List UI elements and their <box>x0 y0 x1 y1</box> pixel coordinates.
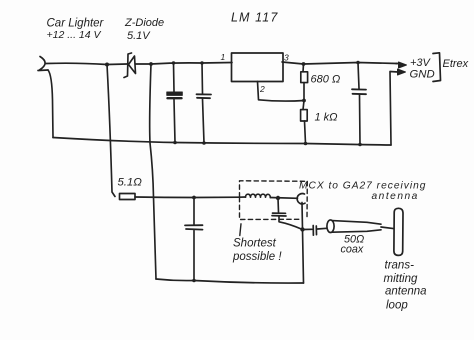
wire LM117 pin3 to output node <box>282 62 397 64</box>
svg-text:+12 ... 14 V: +12 ... 14 V <box>47 29 102 41</box>
connector J1 car lighter plug <box>38 57 48 71</box>
wire long vertical from node B down to lower rail <box>150 64 156 279</box>
svg-text:5.1V: 5.1V <box>127 30 151 42</box>
capacitor C4 <box>185 198 203 281</box>
resistor 680R <box>301 64 308 101</box>
inductor L1 <box>240 194 271 197</box>
node E junction cap C4 top <box>192 196 196 200</box>
svg-text:mitting: mitting <box>384 273 418 285</box>
bracket Etrex <box>433 53 441 82</box>
resistor 5R1 <box>120 194 136 200</box>
dashed shield box <box>240 181 308 220</box>
wire +3V output arrow <box>396 63 399 65</box>
junction dot cap C2 top <box>200 61 203 64</box>
leader line from Shortest to shield box <box>240 224 241 236</box>
node B junction at long vertical <box>149 62 153 66</box>
node D junction pin2 / resistors <box>302 99 306 103</box>
junction dot 1k bottom <box>304 142 308 146</box>
svg-text:Shortest: Shortest <box>233 238 277 250</box>
junction dot C2 bottom <box>202 141 206 145</box>
junction dot input cap C1 top <box>172 61 175 64</box>
svg-text:Z-Diode: Z-Diode <box>124 17 164 29</box>
wire lower rail <box>156 279 304 283</box>
wire LM117 pin2 down and right to adj node <box>258 82 305 102</box>
wire +12V rail from plug to zener <box>46 63 127 64</box>
resistor 1k <box>301 101 308 144</box>
svg-text:antenna: antenna <box>385 286 427 298</box>
svg-text:1 kΩ: 1 kΩ <box>315 112 338 124</box>
label Car Lighter <box>47 18 105 42</box>
regulator U1 LM117 box <box>232 53 284 82</box>
label LM 117 <box>231 11 278 25</box>
svg-text:LM 117: LM 117 <box>231 11 278 25</box>
svg-text:antenna: antenna <box>372 191 419 202</box>
svg-text:coax: coax <box>341 244 364 256</box>
wire 5.1R to filter node <box>135 196 240 199</box>
node A junction +12V at first vertical <box>105 63 109 67</box>
svg-text:MCX to GA27 receiving: MCX to GA27 receiving <box>299 180 426 191</box>
svg-text:loop: loop <box>386 300 408 312</box>
capacitor C3 output <box>352 63 366 145</box>
capacitor C5 <box>272 198 303 230</box>
capacitor C1 electrolytic <box>167 63 183 143</box>
svg-text:3: 3 <box>284 53 289 63</box>
connector MCX plug <box>297 194 305 204</box>
wire +12V rail zener to LM117 pin1 <box>136 63 233 65</box>
wire vertical from node A down to 5.1R resistor <box>107 65 115 197</box>
junction dot C1 bottom <box>173 141 177 145</box>
svg-text:5.1Ω: 5.1Ω <box>118 177 143 189</box>
junction dot C4 bottom <box>192 279 196 283</box>
capacitor C2 <box>197 63 212 143</box>
wire shield node to coax <box>303 228 327 229</box>
node G shield junction <box>300 227 304 231</box>
antenna loop element <box>394 208 403 255</box>
node F junction coil / cap C5 <box>276 196 280 200</box>
svg-text:Car Lighter: Car Lighter <box>47 18 105 30</box>
wire GND output with arrow <box>390 72 398 146</box>
svg-text:possible !: possible ! <box>232 251 282 263</box>
node C junction pin3 / 680R <box>302 62 306 66</box>
svg-text:GND: GND <box>410 69 435 81</box>
svg-text:1: 1 <box>221 52 226 62</box>
svg-text:2: 2 <box>259 84 265 94</box>
zener diode D1 5.1V <box>124 53 136 78</box>
junction dot output cap C3 top <box>356 61 360 65</box>
wire coil to MCX connector <box>270 197 297 200</box>
svg-text:680 Ω: 680 Ω <box>311 73 341 85</box>
wire plug negative terminal down to GND rail <box>48 70 53 138</box>
wire GND bottom rail <box>53 138 391 146</box>
svg-text:trans-: trans- <box>385 260 415 272</box>
label Z-Diode 5.1V <box>124 17 164 42</box>
wire MCX down to shield node <box>302 203 304 284</box>
svg-text:+3V: +3V <box>410 57 432 69</box>
junction dot C3 bottom <box>358 143 362 147</box>
coax strain relief bars <box>313 226 316 236</box>
svg-text:Etrex: Etrex <box>443 58 469 70</box>
coax cable cylinder <box>327 220 394 233</box>
